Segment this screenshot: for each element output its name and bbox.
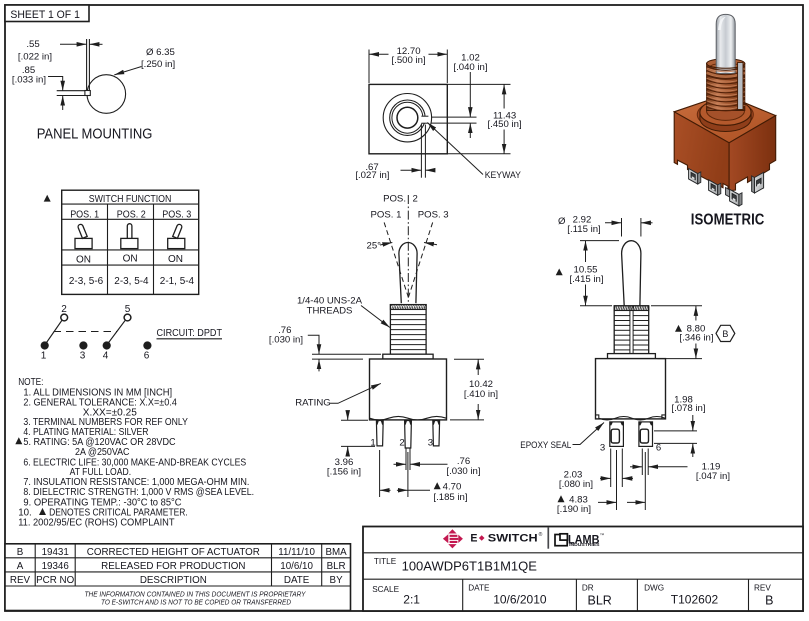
circuit terminal 4 node — [103, 341, 111, 349]
SCALE cell — [372, 585, 420, 607]
svg-text:10/6/2010: 10/6/2010 — [493, 593, 547, 607]
revision zone hexagon B — [716, 325, 735, 341]
front view POS.3 travel dashed line — [408, 222, 432, 297]
svg-text:RELEASED FOR PRODUCTION: RELEASED FOR PRODUCTION — [101, 561, 245, 572]
isometric top face recess ellipse — [697, 101, 753, 129]
svg-text:ON: ON — [123, 254, 138, 265]
svg-text:BLR: BLR — [327, 561, 346, 572]
svg-text:[.047 in]: [.047 in] — [696, 471, 730, 482]
revision row B — [17, 547, 347, 558]
dimension 12.70 [.500 in] — [369, 46, 447, 83]
revision header row — [10, 575, 343, 586]
note 10 critical triangle — [39, 508, 46, 515]
svg-text:[.410 in]: [.410 in] — [464, 389, 498, 400]
isometric bushing second ring — [710, 63, 741, 70]
dimension 11.43 [.450 in] — [447, 84, 521, 153]
isometric box right face — [729, 116, 776, 191]
KEYWAY label and leader — [427, 123, 521, 182]
dimension 1.98 [.078 in] — [654, 395, 706, 457]
isometric keyway slot — [738, 63, 743, 110]
isometric flange ring top — [700, 99, 751, 125]
svg-text:[.500 in]: [.500 in] — [392, 55, 426, 66]
svg-text:[.190 in]: [.190 in] — [557, 504, 591, 515]
DWG cell — [644, 584, 718, 607]
LAMB INDUSTRIES logo — [555, 532, 604, 547]
circuit terminal 2 contact — [61, 314, 68, 321]
isometric box left face — [674, 112, 729, 191]
svg-text:10/6/10: 10/6/10 — [280, 561, 313, 572]
EPOXY SEAL label and leader — [520, 423, 604, 452]
angle arrow right — [424, 243, 437, 245]
dimension .76 [.030 in] flange height — [269, 325, 381, 372]
svg-text:[.115 in]: [.115 in] — [567, 224, 600, 235]
svg-text:SHEET 1 OF 1: SHEET 1 OF 1 — [10, 9, 80, 21]
svg-text:E: E — [470, 533, 477, 545]
svg-text:2: 2 — [61, 304, 67, 315]
svg-text:[.450 in]: [.450 in] — [488, 119, 522, 130]
keyway projection line lower — [431, 122, 476, 124]
svg-text:DATE: DATE — [284, 575, 310, 586]
dimension 4.83 [.190 in] with critical triangle — [557, 450, 645, 515]
panel section lower line — [57, 95, 85, 97]
dimension 3.96 [.156 in] — [327, 411, 375, 478]
table ON row — [76, 254, 183, 266]
circuit pole 1 lever wire — [46, 321, 62, 345]
svg-text:[.040 in]: [.040 in] — [453, 62, 487, 73]
RATING label and leader — [295, 383, 381, 408]
dimension .67 [.027 in] — [355, 162, 433, 181]
front view switch body — [370, 359, 447, 420]
svg-text:[.033 in]: [.033 in] — [12, 75, 46, 86]
side view keyway slot line left — [629, 306, 631, 354]
DATE cell — [468, 584, 547, 607]
svg-text:[.078 in]: [.078 in] — [671, 403, 705, 414]
svg-text:REV: REV — [10, 575, 31, 586]
svg-text:ISOMETRIC: ISOMETRIC — [691, 212, 765, 229]
circuit pole 2 lever wire — [108, 321, 126, 345]
svg-text:2: 2 — [399, 438, 404, 449]
panel mounting hole circle — [87, 75, 126, 114]
svg-text:.55: .55 — [26, 39, 39, 50]
dimension 4.70 [.185 in] with critical triangle — [380, 450, 468, 503]
front view toggle centerline — [407, 195, 409, 305]
svg-text:POS. 3: POS. 3 — [418, 210, 449, 221]
isometric bushing front rim over toggle — [707, 64, 745, 69]
svg-text:BMA: BMA — [325, 547, 347, 558]
svg-text:A: A — [17, 561, 24, 572]
dimension .55 [.022 in] — [18, 39, 103, 63]
side view bushing body — [614, 306, 649, 354]
svg-text:DR: DR — [582, 584, 594, 593]
svg-text:6: 6 — [656, 442, 661, 453]
DR cell — [582, 584, 612, 608]
side view epoxy wavy bottom — [599, 417, 665, 420]
isometric terminal 5 partial — [726, 188, 730, 198]
isometric toggle lever — [716, 14, 735, 73]
svg-text:POS. 1: POS. 1 — [371, 210, 402, 221]
svg-text:11/11/10: 11/11/10 — [278, 547, 315, 558]
notes block — [18, 377, 254, 528]
top view flange circle — [383, 94, 431, 142]
svg-text:2: 2 — [413, 194, 418, 205]
svg-text:3: 3 — [80, 351, 86, 362]
toggle icon position 2 — [121, 224, 138, 249]
top view thread outer circle — [390, 100, 425, 135]
svg-text:POS. 3: POS. 3 — [162, 209, 191, 220]
svg-text:Ø: Ø — [558, 216, 566, 227]
sheet label box — [5, 5, 89, 22]
svg-text:6: 6 — [144, 351, 150, 362]
front view terminal 2 — [405, 421, 412, 449]
svg-text:[.250 in]: [.250 in] — [141, 59, 175, 70]
svg-text:DATE: DATE — [468, 584, 490, 593]
svg-text:REV: REV — [754, 584, 771, 593]
side view switch body — [596, 359, 666, 419]
svg-text:SCALE: SCALE — [372, 585, 399, 594]
isometric terminal 1 — [689, 169, 701, 185]
svg-text:[.346 in]: [.346 in] — [679, 333, 713, 344]
svg-text:3: 3 — [600, 442, 605, 453]
svg-text:TO E-SWITCH AND IS NOT TO BE C: TO E-SWITCH AND IS NOT TO BE COPIED OR T… — [101, 597, 292, 606]
angle arrow left — [380, 243, 392, 246]
svg-text:®: ® — [539, 531, 543, 538]
keyway projection line upper — [431, 116, 476, 118]
isometric flange inner step — [707, 101, 745, 120]
dimension dia 6.35 [.250 in] — [114, 47, 175, 75]
switch function table grid — [62, 190, 199, 294]
svg-text:5: 5 — [125, 304, 131, 315]
panel keyway slot right line — [88, 39, 90, 91]
note 5 critical triangle — [15, 437, 22, 444]
svg-text:4: 4 — [103, 351, 109, 362]
svg-text:[.030 in]: [.030 in] — [269, 334, 303, 345]
critical parameter triangle (table) — [44, 195, 51, 202]
svg-text:POS. 2: POS. 2 — [117, 209, 146, 220]
svg-text:EPOXY SEAL: EPOXY SEAL — [520, 440, 572, 451]
isometric flange ring lower — [700, 112, 751, 131]
side view base plate step — [596, 415, 666, 419]
dimension .76 [.030 in] terminal thickness — [394, 449, 481, 477]
svg-text:SWITCH FUNCTION: SWITCH FUNCTION — [89, 194, 172, 205]
side view bushing flange — [608, 354, 656, 359]
svg-text:[.415 in]: [.415 in] — [569, 274, 603, 285]
side view bushing threads right column — [633, 316, 649, 350]
toggle icon position 1 — [75, 224, 92, 248]
svg-text:DWG: DWG — [644, 584, 664, 593]
front view bushing body — [390, 305, 426, 355]
svg-text:2-3, 5-6: 2-3, 5-6 — [69, 276, 104, 287]
logo separator line — [547, 528, 549, 549]
svg-text:19346: 19346 — [42, 561, 70, 572]
svg-text:BY: BY — [330, 575, 344, 586]
circuit terminal 1 node — [41, 341, 49, 349]
svg-text:Ø 6.35: Ø 6.35 — [146, 47, 175, 58]
front view bushing threads — [390, 315, 426, 350]
isometric terminal 2 — [709, 180, 721, 196]
svg-text:19431: 19431 — [42, 547, 69, 558]
isometric terminal 3 front — [730, 189, 742, 206]
dimension 10.55 [.415 in] with critical triangle — [556, 241, 619, 306]
panel section upper line — [57, 90, 85, 92]
svg-text:INDUSTRIES: INDUSTRIES — [569, 542, 599, 547]
dimension .85 [.033 in] — [12, 65, 63, 110]
dimension 8.80 [.346 in] with critical triangle — [651, 306, 714, 359]
dimension 2.03 [.080 in] — [559, 449, 633, 490]
svg-text:6. ELECTRIC LIFE: 30,000 MAKE-: 6. ELECTRIC LIFE: 30,000 MAKE-AND-BREAK … — [23, 457, 246, 468]
svg-text:PCR NO: PCR NO — [36, 575, 74, 586]
front view bushing flange — [383, 354, 433, 359]
front view toggle bat — [399, 243, 417, 304]
front view terminal 1 — [376, 421, 383, 446]
revision row A — [17, 561, 346, 572]
CIRCUIT: DPDT label — [157, 328, 223, 339]
isometric coil ring over toggle base — [707, 67, 745, 79]
top view keyway notch — [421, 116, 428, 123]
top view square body outline — [369, 84, 447, 153]
svg-text:2-1, 5-4: 2-1, 5-4 — [160, 276, 195, 287]
svg-text:THREADS: THREADS — [307, 306, 353, 317]
circuit terminal 6 node — [143, 341, 151, 349]
svg-text:RATING: RATING — [295, 398, 331, 409]
side view bushing threads left column — [614, 316, 630, 350]
front view epoxy seal wavy line — [370, 416, 447, 420]
side view toggle bat — [622, 241, 641, 306]
dimension 1.19 [.047 in] — [630, 449, 730, 482]
svg-text:B: B — [765, 594, 773, 608]
svg-text:[.022 in]: [.022 in] — [18, 52, 52, 63]
svg-text:B: B — [17, 547, 24, 558]
svg-text:CORRECTED HEIGHT OF ACTUATOR: CORRECTED HEIGHT OF ACTUATOR — [87, 547, 260, 558]
svg-text:2-3, 5-4: 2-3, 5-4 — [114, 276, 149, 287]
panel keyway slot left line — [86, 39, 88, 91]
svg-text:100AWDP6T1B1M1QE: 100AWDP6T1B1M1QE — [402, 559, 538, 574]
svg-text:T102602: T102602 — [671, 593, 719, 607]
table terminal connections row — [69, 276, 195, 287]
side view keyway slot line right — [632, 306, 634, 354]
isometric terminal 4 — [752, 172, 764, 193]
toggle icon position 3 — [168, 224, 185, 248]
top view thread root circle — [392, 102, 423, 133]
svg-text:1: 1 — [41, 351, 47, 362]
svg-text:CIRCUIT: DPDT: CIRCUIT: DPDT — [157, 328, 223, 339]
front view bushing knurl band — [390, 305, 426, 310]
circuit mechanical link dashed wire — [54, 331, 118, 333]
1/4-40 UNS-2A THREADS label — [297, 296, 390, 328]
svg-text:POS. 1: POS. 1 — [70, 209, 99, 220]
svg-text:SWITCH: SWITCH — [488, 533, 538, 545]
dimension 10.42 [.410 in] — [450, 359, 498, 420]
svg-text:2:1: 2:1 — [403, 593, 420, 607]
svg-text:ON: ON — [168, 254, 183, 265]
side view terminal 3 — [610, 422, 624, 447]
svg-text:11. 2002/95/EC (ROHS) COMPLAIN: 11. 2002/95/EC (ROHS) COMPLAINT — [18, 517, 174, 528]
keyway width extension line right — [424, 125, 426, 178]
front view POS.1 travel dashed line — [384, 222, 408, 297]
E-SWITCH logo mark — [443, 529, 463, 548]
svg-text:3: 3 — [428, 438, 433, 449]
svg-text:DESCRIPTION: DESCRIPTION — [140, 575, 207, 586]
svg-text:POS.: POS. — [383, 194, 406, 205]
svg-text:[.156 in]: [.156 in] — [327, 466, 361, 477]
circuit terminal 5 contact — [124, 314, 131, 321]
svg-text:ON: ON — [76, 254, 91, 265]
svg-text:™: ™ — [600, 533, 605, 538]
svg-text:1: 1 — [370, 438, 375, 449]
circuit terminal 3 node — [79, 341, 87, 349]
front view terminal 3 — [433, 421, 440, 446]
E-SWITCH logotype — [470, 531, 542, 545]
svg-text:KEYWAY: KEYWAY — [485, 170, 522, 181]
side view bushing knurl band — [614, 306, 649, 311]
svg-text:[.027 in]: [.027 in] — [355, 170, 389, 181]
svg-text:[.185 in]: [.185 in] — [433, 492, 467, 503]
svg-text:B: B — [722, 329, 728, 339]
revision history table — [5, 544, 351, 611]
svg-text:PANEL MOUNTING: PANEL MOUNTING — [37, 127, 153, 143]
top view toggle circle — [397, 107, 418, 128]
svg-text:[.030 in]: [.030 in] — [446, 466, 480, 477]
svg-text:TITLE: TITLE — [374, 557, 397, 566]
keyway width extension line left — [420, 125, 422, 178]
proprietary notice — [85, 590, 307, 607]
dimension 1.02 [.040 in] — [453, 53, 487, 138]
panel mounting keyway notch — [85, 91, 90, 96]
svg-text:BLR: BLR — [588, 594, 612, 608]
svg-text:25°: 25° — [367, 241, 382, 252]
isometric bushing top ring — [707, 59, 745, 69]
side view terminal 6 — [639, 422, 653, 447]
REV cell — [754, 584, 773, 608]
isometric box top face — [674, 95, 776, 143]
isometric threaded bushing — [707, 64, 745, 111]
dimension dia 2.92 [.115 in] — [558, 215, 653, 237]
svg-text:[.080 in]: [.080 in] — [559, 479, 593, 490]
title block frame — [363, 527, 803, 612]
TITLE label and part number — [374, 557, 537, 574]
